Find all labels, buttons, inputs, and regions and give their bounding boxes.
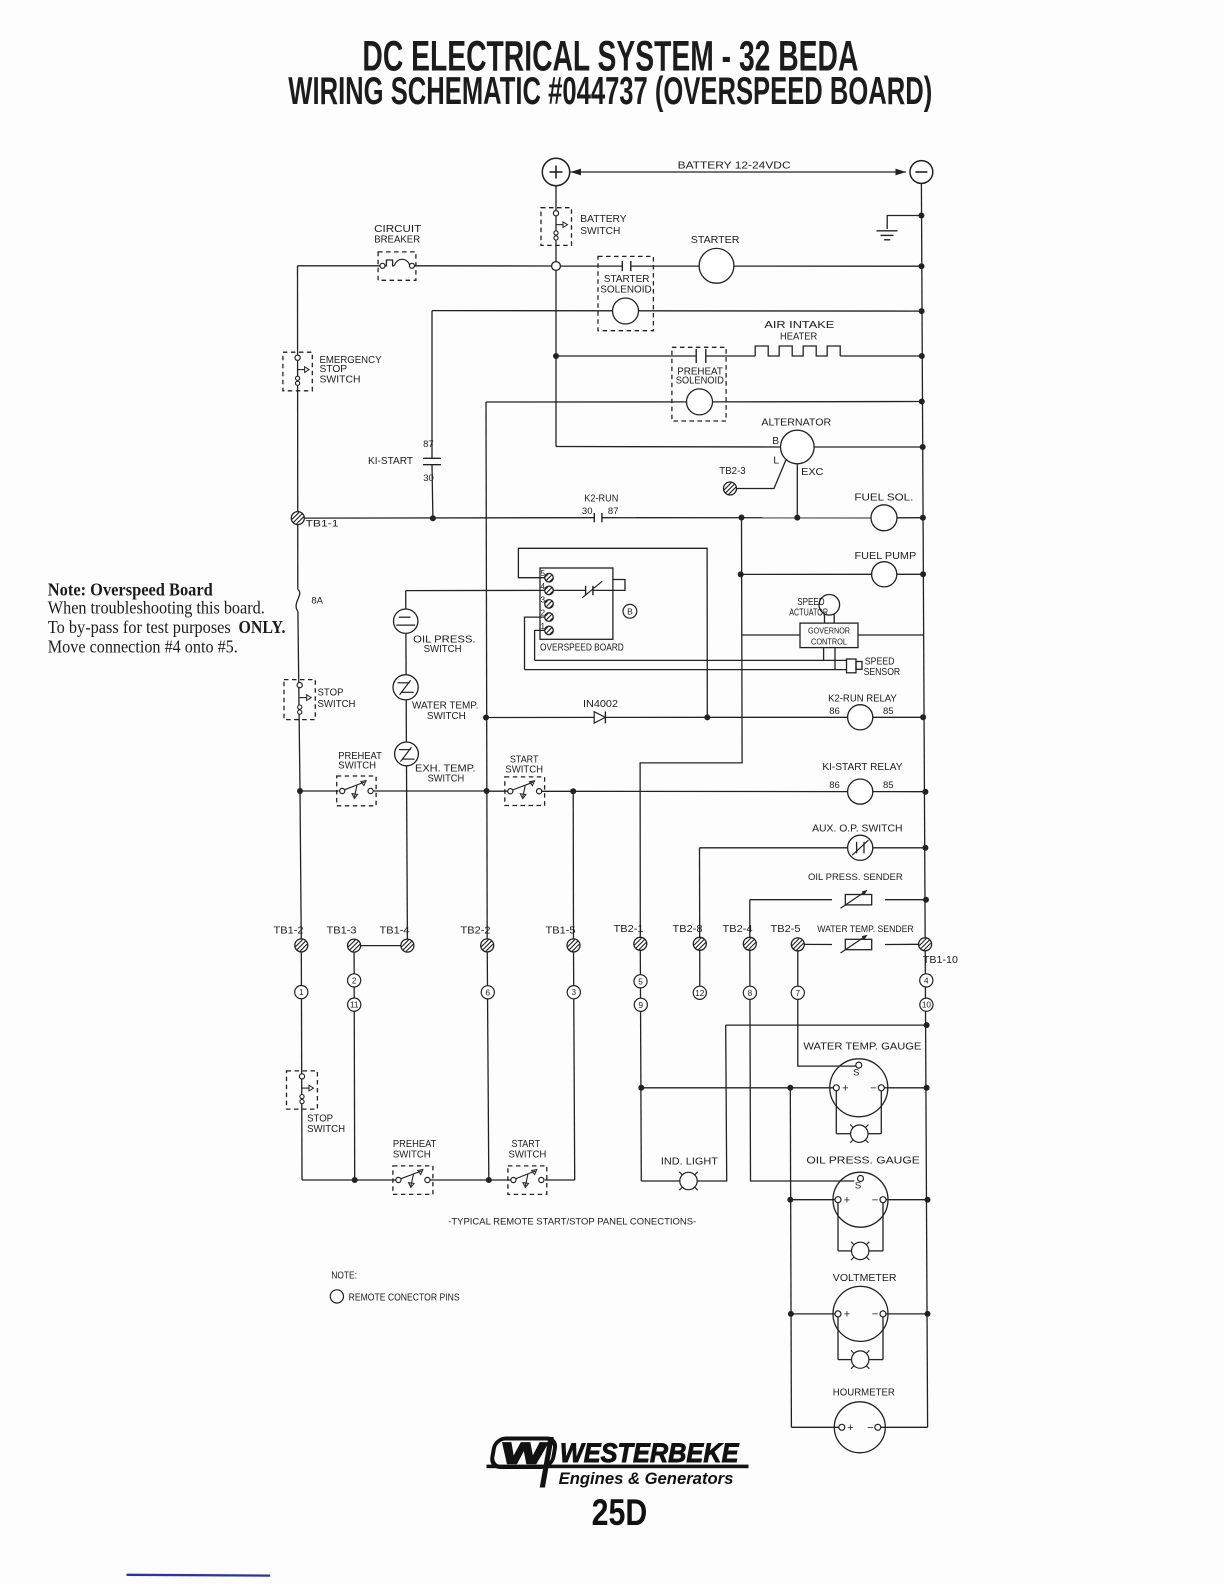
gauge water temp <box>830 1059 888 1117</box>
wire TB1-1 fuel sol row y=518 <box>304 517 594 519</box>
svg-text:−: − <box>867 1422 873 1434</box>
svg-text:TB2-5: TB2-5 <box>771 924 801 935</box>
svg-text:SWITCH: SWITCH <box>320 375 361 386</box>
svg-text:7: 7 <box>796 989 801 998</box>
logo underline <box>487 1465 749 1469</box>
wire starter solenoid row y=311 <box>432 310 922 313</box>
switch preheat (remote) <box>393 1166 433 1195</box>
pump fuel pump <box>872 562 897 587</box>
svg-text:TB1-3: TB1-3 <box>327 926 357 937</box>
battery + terminal <box>542 158 569 185</box>
node open circle junction below battery switch <box>552 262 561 271</box>
svg-text:SWITCH: SWITCH <box>428 773 465 784</box>
svg-text:K2-RUN: K2-RUN <box>584 494 618 505</box>
svg-text:START: START <box>512 1139 541 1150</box>
wire TB2-2 column x=486 <box>486 402 487 945</box>
svg-text:−: − <box>872 1309 878 1321</box>
overspeed board pins 5-1 <box>545 573 554 582</box>
circled B <box>623 604 637 618</box>
svg-text:HOURMETER: HOURMETER <box>833 1388 895 1399</box>
contact K2-RUN points <box>593 513 595 522</box>
diode IN4002 <box>594 712 605 723</box>
wire governor control row y=635 <box>742 634 800 636</box>
pin 8 <box>743 986 756 999</box>
svg-text:10: 10 <box>922 1001 932 1010</box>
sender water temp <box>845 939 871 949</box>
wire x=790 gauge + column <box>790 1088 791 1428</box>
pin 1 <box>295 986 308 999</box>
svg-text:SWITCH: SWITCH <box>427 711 466 722</box>
wire alternator B row y=447 <box>556 446 781 449</box>
svg-text:S: S <box>853 1067 859 1078</box>
wire overspeed pin5 loop <box>518 548 707 717</box>
wire x=742 column (K2 row to TB2-1 elbow) <box>640 518 742 944</box>
wire AUX OP row y=848 <box>700 847 848 849</box>
contact preheat solenoid points <box>695 349 697 363</box>
wire ground branch <box>887 216 921 230</box>
svg-text:5: 5 <box>540 569 545 578</box>
wire speed actuator stubs <box>824 615 826 624</box>
switch oil pressure <box>394 609 418 633</box>
wire oil press gauge + row <box>790 1199 835 1201</box>
wire K1-START column <box>431 311 433 459</box>
wire overspeed pin2 branch <box>525 617 545 670</box>
svg-text:5: 5 <box>638 977 643 986</box>
terminal TB2-3 <box>724 482 737 495</box>
wire governor stubs to sensor rows <box>823 648 825 661</box>
svg-text:SWITCH: SWITCH <box>318 699 356 710</box>
svg-text:WIRING SCHEMATIC #044737 (OVER: WIRING SCHEMATIC #044737 (OVERSPEED BOAR… <box>288 70 932 113</box>
meter voltmeter <box>833 1286 888 1341</box>
wire oil sender row y=900 <box>750 899 832 901</box>
svg-text:TB1-10: TB1-10 <box>923 955 958 966</box>
svg-text:SWITCH: SWITCH <box>509 1150 547 1161</box>
svg-text:-TYPICAL REMOTE START/STOP PAN: -TYPICAL REMOTE START/STOP PANEL CONECTI… <box>448 1216 696 1227</box>
svg-text:2: 2 <box>540 609 545 618</box>
svg-text:TB2-1: TB2-1 <box>614 924 644 935</box>
wire water sender row y=944.5 <box>804 943 832 945</box>
switch exh temp <box>395 742 419 766</box>
wire overspeed pin1 branch <box>535 630 545 660</box>
svg-text:FUEL PUMP: FUEL PUMP <box>855 551 917 562</box>
svg-text:30: 30 <box>582 506 593 517</box>
svg-text:8: 8 <box>748 989 753 998</box>
wire remote panel row y=1180 <box>302 1179 396 1181</box>
pin 3 <box>567 986 580 999</box>
svg-text:STOP: STOP <box>320 364 348 375</box>
battery - terminal <box>910 161 933 184</box>
pin 4 <box>920 974 933 987</box>
wire TB1-3 column <box>353 952 356 1180</box>
svg-text:TB1-5: TB1-5 <box>546 926 576 937</box>
svg-text:BATTERY 12-24VDC: BATTERY 12-24VDC <box>678 160 791 171</box>
wire TB2-4 column upper <box>749 900 751 938</box>
svg-text:CONTROL: CONTROL <box>811 636 847 646</box>
svg-text:OIL PRESS. GAUGE: OIL PRESS. GAUGE <box>806 1156 920 1167</box>
wire voltmeter + row <box>791 1313 835 1315</box>
svg-text:CIRCUIT: CIRCUIT <box>374 224 421 235</box>
svg-text:L: L <box>773 456 779 467</box>
pin 12 <box>693 986 706 999</box>
svg-text:SWITCH: SWITCH <box>505 764 543 775</box>
wire overspeed pin4 row <box>406 589 545 591</box>
wire alternator EXC stub <box>796 464 798 518</box>
wire alternator L to TB2-3 <box>737 460 786 488</box>
wire OPG lamp loop <box>837 1203 839 1251</box>
svg-text:SWITCH: SWITCH <box>424 644 462 655</box>
wire left bus vertical <box>297 266 299 590</box>
switch stop (remote) <box>287 1071 318 1109</box>
terminal TB2-1 <box>634 937 647 950</box>
svg-text:STOP: STOP <box>318 688 344 699</box>
terminal TB2-8 <box>693 937 706 950</box>
pin 5 <box>634 975 647 988</box>
relay starter solenoid (dashed box) <box>598 256 653 330</box>
svg-text:86: 86 <box>829 706 840 717</box>
switch emergency stop (dashed box) <box>283 352 312 391</box>
pin 11 <box>348 998 361 1011</box>
svg-text:TB1-1: TB1-1 <box>306 519 339 530</box>
svg-text:OIL PRESS. SENDER: OIL PRESS. SENDER <box>808 872 903 883</box>
terminal TB2-4 <box>743 937 756 950</box>
switch aux oil pressure <box>848 835 873 860</box>
svg-text:−: − <box>872 1194 878 1206</box>
svg-text:TB2-3: TB2-3 <box>719 466 746 477</box>
svg-text:TB1-4: TB1-4 <box>380 926 410 937</box>
switch overspeed board internal contact <box>585 586 587 595</box>
terminal TB1-5 <box>567 939 580 952</box>
svg-text:BATTERY: BATTERY <box>580 214 627 225</box>
lamp IND light <box>680 1172 697 1189</box>
terminal TB2-2 <box>481 939 494 952</box>
pin 9 <box>634 998 647 1011</box>
svg-text:When troubleshooting this boar: When troubleshooting this board. <box>48 598 265 618</box>
wire battery junction down to alternator elbow <box>555 356 557 447</box>
wire speed sensor upper row y=660 <box>535 659 847 661</box>
svg-text:SWITCH: SWITCH <box>393 1150 431 1161</box>
svg-text:Move connection #4 onto #5.: Move connection #4 onto #5. <box>48 636 238 656</box>
svg-text:25D: 25D <box>592 1492 648 1533</box>
svg-text:1: 1 <box>299 988 304 997</box>
svg-text:+: + <box>842 1082 848 1094</box>
switch start (remote) <box>508 1166 547 1195</box>
wire TB2-4 column lower to OPG S <box>750 950 854 1181</box>
svg-text:IND. LIGHT: IND. LIGHT <box>661 1156 718 1167</box>
logo westerbeke W mark <box>487 1437 557 1488</box>
svg-text:ONLY.: ONLY. <box>239 617 286 637</box>
svg-text:S: S <box>855 1181 861 1192</box>
svg-text:9: 9 <box>639 1001 644 1010</box>
svg-text:B: B <box>627 606 633 616</box>
wire preheat/start switch row y=791 <box>300 790 339 792</box>
svg-text:KI-START RELAY: KI-START RELAY <box>822 762 902 773</box>
terminal TB1-10 <box>919 938 932 951</box>
sender oil pressure <box>845 895 871 905</box>
pin 7 <box>791 986 804 999</box>
relay K2-RUN coil <box>848 705 873 730</box>
switch stop (left bus) <box>284 680 315 720</box>
gauge oil pressure <box>833 1172 888 1227</box>
svg-text:STARTER: STARTER <box>691 235 740 246</box>
svg-text:WATER TEMP. SENDER: WATER TEMP. SENDER <box>817 924 913 935</box>
wire circuit breaker row y=266 <box>298 265 381 267</box>
wire voltmeter lamp loop <box>837 1317 839 1360</box>
svg-text:SOLENOID: SOLENOID <box>676 376 724 387</box>
svg-text:K2-RUN RELAY: K2-RUN RELAY <box>828 693 897 704</box>
wire TB1-3 TB1-4 link <box>361 945 401 947</box>
svg-text:12: 12 <box>695 989 705 998</box>
svg-text:Note: Overspeed Board: Note: Overspeed Board <box>48 579 213 599</box>
wire air intake heater row y=356 <box>556 355 696 357</box>
svg-text:SENSOR: SENSOR <box>864 667 901 678</box>
switch battery (dashed box) <box>541 208 572 246</box>
svg-text:6: 6 <box>486 988 491 997</box>
bottom blue rule <box>127 1574 271 1577</box>
svg-text:3: 3 <box>572 988 577 997</box>
svg-text:HEATER: HEATER <box>780 331 817 342</box>
lamp water temp gauge <box>851 1125 868 1142</box>
svg-text:SWITCH: SWITCH <box>580 226 620 237</box>
svg-text:B: B <box>772 436 779 447</box>
svg-text:4: 4 <box>924 976 929 985</box>
relay K1-START coil <box>848 779 873 804</box>
svg-text:REMOTE CONECTOR PINS: REMOTE CONECTOR PINS <box>349 1293 460 1304</box>
svg-text:BREAKER: BREAKER <box>374 235 420 246</box>
svg-text:AUX. O.P. SWITCH: AUX. O.P. SWITCH <box>812 823 902 834</box>
svg-text:ACTUATOR: ACTUATOR <box>789 608 828 619</box>
svg-text:TB2-4: TB2-4 <box>723 924 753 935</box>
junction dots <box>553 353 559 359</box>
wire diode row y=717.4 <box>486 716 594 718</box>
wire battery plus-minus arrow line <box>571 171 907 173</box>
wire IND light row <box>641 1180 680 1182</box>
wire y=1025 row to right bus <box>726 1024 927 1026</box>
svg-text:2: 2 <box>352 976 357 985</box>
terminal TB1-4 <box>401 939 414 952</box>
svg-text:+: + <box>847 1422 853 1434</box>
pin 6 <box>481 986 494 999</box>
svg-text:IN4002: IN4002 <box>583 699 618 710</box>
wire water temp gauge + row <box>641 1087 833 1089</box>
switch start (engine panel) <box>505 777 545 806</box>
svg-text:+: + <box>844 1194 850 1206</box>
capacitor K1-START contact <box>423 457 441 459</box>
svg-text:TB2-8: TB2-8 <box>673 924 703 935</box>
alternator G1 <box>781 430 815 464</box>
terminal TB1-2 <box>295 939 308 952</box>
svg-text:WATER TEMP.: WATER TEMP. <box>412 700 478 711</box>
svg-text:NOTE:: NOTE: <box>331 1271 357 1282</box>
svg-text:TB2-2: TB2-2 <box>461 926 491 937</box>
governor control box <box>800 623 858 648</box>
node dot preheat row right bus <box>919 399 925 405</box>
svg-text:STOP: STOP <box>307 1113 333 1124</box>
wire battery + to battery switch to junction <box>555 186 557 262</box>
svg-text:3: 3 <box>540 595 545 604</box>
svg-text:EXC: EXC <box>801 467 823 478</box>
pin 2 <box>348 974 361 987</box>
svg-text:WATER TEMP. GAUGE: WATER TEMP. GAUGE <box>803 1041 921 1052</box>
wire TB2-8 column <box>699 848 701 987</box>
wire TB1-5 column <box>572 791 574 945</box>
svg-text:To by-pass for test purposes: To by-pass for test purposes <box>48 617 231 637</box>
svg-text:4: 4 <box>540 582 545 591</box>
terminal TB2-5 <box>791 938 804 951</box>
svg-text:86: 86 <box>829 780 840 791</box>
svg-text:+: + <box>844 1309 850 1321</box>
svg-text:GOVERNOR: GOVERNOR <box>808 626 850 636</box>
ground symbol <box>877 230 898 232</box>
svg-text:OVERSPEED BOARD: OVERSPEED BOARD <box>540 642 624 653</box>
terminal TB1-1 <box>291 512 304 525</box>
svg-text:SWITCH: SWITCH <box>307 1124 345 1135</box>
svg-text:30: 30 <box>423 473 434 484</box>
overspeed board outline <box>540 568 613 639</box>
wire right bus (battery - down to hourmeter) <box>921 184 927 1428</box>
svg-text:VOLTMETER: VOLTMETER <box>833 1273 897 1284</box>
svg-text:ALTERNATOR: ALTERNATOR <box>761 418 831 429</box>
svg-text:SOLENOID: SOLENOID <box>600 284 651 295</box>
meter hourmeter <box>834 1402 885 1453</box>
svg-text:87: 87 <box>423 439 434 450</box>
svg-text:87: 87 <box>608 506 619 517</box>
relay preheat solenoid (dashed box) <box>672 347 726 421</box>
lamp oil press gauge <box>852 1242 869 1259</box>
switch water temp <box>393 675 418 700</box>
wire WTG lamp loop <box>835 1091 837 1134</box>
svg-text:TB1-2: TB1-2 <box>274 926 304 937</box>
motor starter M1 <box>699 248 734 283</box>
svg-text:Engines & Generators: Engines & Generators <box>559 1469 734 1488</box>
svg-text:1: 1 <box>540 622 545 631</box>
svg-text:11: 11 <box>350 1001 359 1010</box>
svg-text:AIR INTAKE: AIR INTAKE <box>764 320 834 331</box>
wire TB2-5 column to WTG S <box>798 951 856 1066</box>
wire fuel pump row y=574 <box>741 573 872 575</box>
circuit breaker CB1 <box>378 252 416 280</box>
wire hourmeter row <box>791 1426 838 1428</box>
speed sensor <box>847 659 857 673</box>
svg-text:PREHEAT: PREHEAT <box>393 1139 437 1150</box>
heater element square wave <box>755 346 840 356</box>
svg-text:85: 85 <box>883 706 894 717</box>
svg-text:WESTERBEKE: WESTERBEKE <box>560 1438 740 1468</box>
wire TB2-1 column lower <box>640 950 641 1181</box>
svg-text:−: − <box>870 1082 876 1094</box>
wire preheat solenoid row y=402 <box>486 401 687 403</box>
svg-text:85: 85 <box>883 780 894 791</box>
svg-text:KI-START: KI-START <box>368 456 413 467</box>
switch preheat (engine panel) <box>337 776 376 806</box>
wire oil/water/exh switch column <box>405 591 408 766</box>
speed actuator <box>819 595 840 616</box>
pin 10 <box>920 998 933 1011</box>
lamp voltmeter <box>852 1351 869 1368</box>
svg-text:FUEL SOL.: FUEL SOL. <box>854 493 913 504</box>
terminal TB1-3 <box>348 939 361 952</box>
solenoid fuel sol <box>871 505 897 531</box>
svg-text:8A: 8A <box>311 596 323 607</box>
fuse 8A s-curve on left bus <box>296 590 300 612</box>
svg-text:SWITCH: SWITCH <box>338 761 376 772</box>
wire speed sensor lower row y=669.6 <box>525 669 847 671</box>
